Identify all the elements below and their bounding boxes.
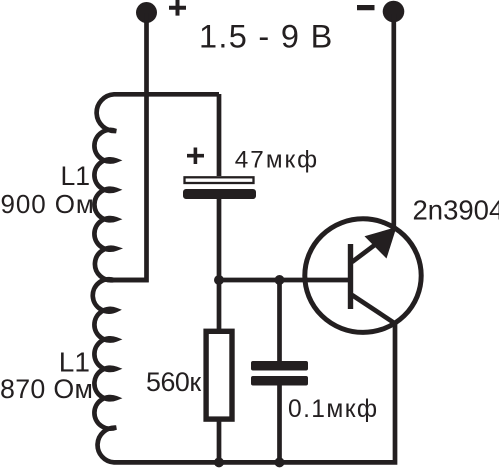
node A junction dot	[214, 275, 224, 285]
svg-text:900 Ом: 900 Ом	[1, 189, 95, 219]
capacitor C1 47uF plus sign	[187, 148, 204, 165]
junction dot resistor-ground	[214, 457, 224, 467]
transistor Q1 base bar	[348, 244, 353, 309]
node B junction dot	[275, 275, 285, 285]
battery - terminal	[383, 1, 405, 23]
minus sign at - terminal	[357, 5, 375, 10]
wire top rail to capacitor C1	[217, 94, 222, 176]
svg-text:L1: L1	[59, 347, 90, 378]
svg-text:1.5 - 9 В: 1.5 - 9 В	[199, 19, 334, 55]
svg-text:47мкф: 47мкф	[235, 147, 319, 174]
wire base node to transistor	[219, 278, 351, 283]
wire C2 bottom to ground rail	[277, 384, 282, 462]
capacitor C2 top plate	[251, 361, 308, 371]
junction dot C2-ground	[275, 457, 285, 467]
transistor Q1 collector lead	[352, 295, 397, 325]
svg-text:0.1мкф: 0.1мкф	[288, 396, 379, 423]
wire - terminal down to transistor emitter	[391, 14, 396, 229]
plus sign at + terminal	[169, 0, 186, 16]
transistor Q1 emitter lead	[352, 241, 380, 262]
wire + terminal down to coil tap	[109, 13, 147, 280]
wire C1 bottom to base node	[217, 199, 222, 280]
inductor L1 upper winding	[94, 94, 219, 280]
capacitor C2 bottom plate	[251, 376, 308, 386]
battery + terminal	[136, 2, 157, 23]
transistor Q1 emitter arrow	[365, 227, 397, 259]
capacitor C1 top plate	[185, 177, 254, 183]
inductor L1 lower winding	[93, 279, 395, 462]
capacitor C1 bottom plate	[183, 189, 256, 199]
wire node A down to resistor R1	[217, 280, 222, 332]
svg-text:870 Ом: 870 Ом	[0, 374, 93, 404]
transistor Q1 circle	[305, 219, 421, 333]
svg-text:560к: 560к	[146, 367, 201, 397]
svg-text:L1: L1	[61, 161, 91, 191]
wire node B down to capacitor C2	[277, 280, 282, 362]
resistor R1	[206, 331, 232, 419]
svg-text:2n3904: 2n3904	[413, 195, 499, 226]
wire resistor R1 to ground rail	[217, 420, 222, 462]
